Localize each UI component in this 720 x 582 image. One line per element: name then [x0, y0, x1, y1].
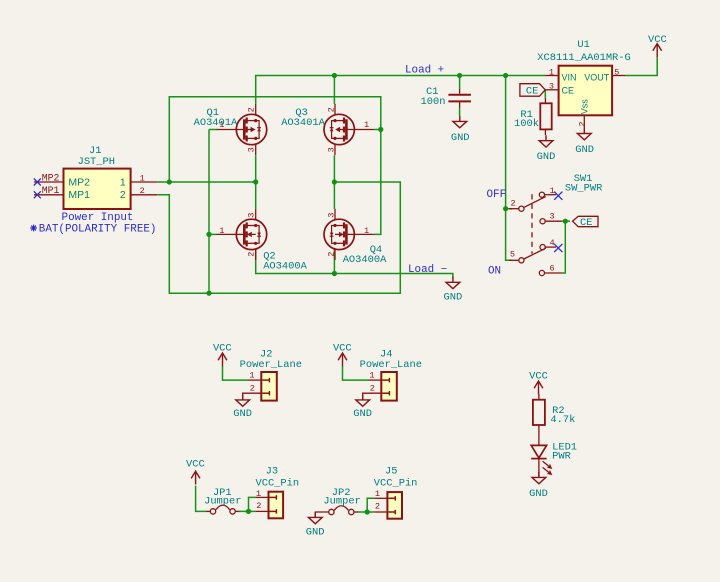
svg-text:MP2: MP2 — [42, 172, 60, 183]
svg-text:5: 5 — [614, 68, 619, 78]
node SW1 pin3 CE junction — [563, 219, 568, 224]
svg-text:GND: GND — [529, 488, 548, 500]
wire VOUT to VCC — [625, 56, 657, 75]
jumper JP1 — [204, 487, 241, 514]
svg-text:5: 5 — [510, 250, 515, 260]
no-connect X on MP2 — [34, 179, 41, 199]
svg-text:2: 2 — [326, 252, 336, 257]
wire Q3 gate stub — [374, 129, 381, 131]
power VCC at J4 — [333, 343, 352, 367]
svg-text:1: 1 — [549, 68, 554, 78]
svg-text:VIN: VIN — [562, 72, 577, 82]
svg-text:MP1: MP1 — [42, 185, 60, 196]
IC U1 XC8111_AA01MR-G — [537, 39, 631, 128]
ground below C1 — [451, 116, 470, 144]
ground on Load- — [444, 277, 463, 304]
svg-text:CE: CE — [580, 217, 592, 229]
wire Q3 source down to right midpoint — [333, 155, 335, 209]
svg-text:VCC: VCC — [186, 459, 205, 471]
svg-text:VCC: VCC — [529, 371, 548, 383]
wire Q3 drain to Load+ — [333, 76, 335, 104]
power VCC top right — [648, 34, 667, 57]
svg-text:1: 1 — [369, 371, 374, 381]
connector J2 Power_Lane — [240, 348, 302, 400]
wire SW1 pin2 stub — [506, 208, 512, 210]
power VCC at J2 — [213, 343, 232, 367]
wire Load+ to SW1 pin2 — [505, 76, 507, 209]
label CE at SW1 — [573, 216, 599, 229]
svg-text:VCC_Pin: VCC_Pin — [255, 478, 299, 490]
svg-text:1: 1 — [120, 176, 126, 188]
svg-text:PWR: PWR — [552, 451, 571, 463]
wire Load+ rail — [256, 76, 546, 104]
svg-text:AO3400A: AO3400A — [263, 260, 307, 272]
wire Q2 gate stub — [209, 233, 217, 235]
svg-text:Jumper: Jumper — [323, 496, 360, 508]
svg-text:1: 1 — [256, 489, 261, 499]
svg-text:2: 2 — [326, 107, 336, 112]
svg-text:J3: J3 — [266, 465, 278, 477]
svg-text:AO3401A: AO3401A — [194, 117, 238, 129]
star glyph of BAT note — [30, 225, 37, 232]
svg-text:GND: GND — [306, 527, 325, 539]
svg-text:2: 2 — [140, 186, 145, 196]
svg-text:MP1: MP1 — [68, 189, 90, 201]
svg-text:3: 3 — [246, 213, 256, 218]
wire J3 VCC down to JP1 — [196, 486, 207, 512]
svg-text:GND: GND — [233, 408, 252, 420]
ground at JP2 — [306, 512, 325, 539]
jumper JP2 — [315, 487, 361, 518]
svg-text:U1: U1 — [577, 39, 589, 51]
svg-text:2: 2 — [250, 384, 255, 394]
svg-text:4: 4 — [550, 238, 555, 248]
svg-text:100k: 100k — [514, 118, 539, 130]
svg-text:2: 2 — [370, 384, 375, 394]
node Q3 gate junction — [378, 127, 383, 132]
svg-text:1: 1 — [550, 186, 555, 196]
transistor Q2 AO3400A — [217, 209, 308, 273]
resistor R2 4.7k — [533, 394, 575, 445]
svg-text:CE: CE — [562, 85, 575, 95]
svg-text:MP2: MP2 — [68, 176, 90, 188]
node Q2 gate junction — [206, 232, 211, 237]
wire C1 bottom to GND — [459, 108, 461, 117]
node JP1 output junction — [246, 509, 251, 514]
svg-text:AO3400A: AO3400A — [343, 254, 387, 266]
svg-text:2: 2 — [120, 189, 126, 201]
svg-text:VCC: VCC — [648, 34, 667, 46]
LED D1 LED1 PWR — [531, 441, 577, 477]
svg-text:GND: GND — [353, 408, 372, 420]
svg-text:AO3401A: AO3401A — [281, 117, 325, 129]
power VCC at JP1 — [186, 459, 205, 485]
connector J1 JST_PH — [30, 145, 157, 235]
svg-text:3: 3 — [326, 147, 336, 152]
svg-text:6: 6 — [550, 264, 555, 274]
svg-text:1: 1 — [364, 226, 369, 236]
svg-text:3: 3 — [246, 147, 256, 152]
svg-text:CE: CE — [526, 86, 538, 98]
svg-text:GND: GND — [537, 151, 556, 163]
node SW1 pin2 junction — [503, 206, 508, 211]
node J1.2 bottom junction — [206, 291, 211, 296]
svg-text:Load +: Load + — [405, 64, 444, 76]
svg-text:1: 1 — [249, 371, 254, 381]
svg-text:GND: GND — [575, 144, 594, 156]
wire JP2 to J5 node — [357, 511, 374, 513]
svg-text:SW_PWR: SW_PWR — [565, 182, 602, 194]
wire rail A J1.1 to Q3/Q4 gates — [169, 97, 380, 235]
svg-text:2: 2 — [375, 502, 380, 512]
wire Q1/Q2 gate vertical — [209, 129, 217, 131]
wire J2 VCC to pin1 — [223, 366, 249, 380]
svg-text:Power_Lane: Power_Lane — [360, 359, 422, 371]
svg-text:VOUT: VOUT — [584, 72, 610, 82]
no-connect X on SW1 pins 1,4 — [554, 192, 562, 253]
connector J5 VCC_Pin — [374, 465, 418, 518]
svg-text:1: 1 — [219, 226, 224, 236]
node SW branch rail junction — [503, 73, 508, 78]
svg-text:Vss: Vss — [579, 99, 589, 115]
connector J3 VCC_Pin — [255, 465, 299, 518]
svg-text:3: 3 — [550, 212, 555, 222]
svg-text:2: 2 — [246, 107, 256, 112]
node Q3 drain rail junction — [332, 73, 337, 78]
svg-text:Power Input: Power Input — [62, 212, 134, 224]
svg-text:2: 2 — [246, 252, 256, 257]
wire J3 node up to pin1 — [249, 497, 256, 511]
node right midpoint junction — [332, 179, 337, 184]
wire SW1 pin3 to CE label — [562, 220, 570, 222]
label CE at U1 — [520, 84, 545, 98]
svg-text:VCC_Pin: VCC_Pin — [374, 478, 418, 490]
ground below LED1 — [529, 472, 548, 500]
svg-text:Power_Lane: Power_Lane — [240, 359, 302, 371]
capacitor C1 100n — [421, 86, 471, 108]
resistor R1 100k — [514, 98, 552, 135]
node JP2 output junction — [365, 509, 370, 514]
svg-text:4.7k: 4.7k — [550, 414, 575, 426]
transistor Q1 AO3401A — [194, 104, 267, 155]
svg-text:3: 3 — [326, 213, 336, 218]
wire Q1 source down to midpoint — [255, 155, 257, 209]
ground at J4 — [353, 394, 372, 419]
svg-text:BAT(POLARITY FREE): BAT(POLARITY FREE) — [39, 224, 157, 236]
wire J1 pin1 to left midpoint — [157, 181, 256, 183]
wire SW1 pin2 to pin5 — [506, 209, 512, 261]
wire right midpoint to J1.2 net — [157, 182, 400, 293]
svg-text:1: 1 — [219, 120, 224, 130]
svg-text:GND: GND — [451, 132, 470, 144]
svg-text:J5: J5 — [385, 465, 397, 477]
transistor Q3 AO3401A — [281, 104, 374, 155]
wire SW1 pin3 node down to pin6 — [562, 221, 565, 273]
node left midpoint junction — [253, 179, 258, 184]
node Q4 Load- junction — [332, 271, 337, 276]
svg-text:1: 1 — [375, 489, 380, 499]
svg-text:2: 2 — [511, 198, 516, 208]
switch SW1 SW_PWR — [487, 173, 603, 278]
svg-text:ON: ON — [488, 266, 501, 278]
wire CE pin to R1 — [544, 90, 546, 98]
transistor Q4 AO3400A — [324, 209, 387, 266]
node J1.1 junction — [167, 179, 172, 184]
wire J4 VCC to pin1 — [343, 366, 369, 380]
svg-text:JST_PH: JST_PH — [78, 156, 115, 168]
svg-text:1: 1 — [364, 120, 369, 130]
svg-text:3: 3 — [549, 81, 554, 91]
wire J5 node up to pin1 — [367, 498, 374, 512]
wire Q4 drain to Load- — [333, 249, 335, 273]
ground at J2 — [233, 394, 252, 419]
svg-text:GND: GND — [444, 292, 463, 304]
svg-text:Load −: Load − — [408, 264, 447, 276]
wire JP1 to J3 node — [239, 510, 256, 512]
svg-text:OFF: OFF — [487, 189, 507, 201]
svg-text:XC8111_AA01MR-G: XC8111_AA01MR-G — [537, 52, 631, 64]
svg-text:1: 1 — [140, 173, 145, 183]
connector J4 Power_Lane — [360, 348, 422, 400]
wire C1 top lead — [459, 76, 461, 90]
wire Q2 drain to Load- — [256, 249, 453, 277]
ground below R1 — [537, 135, 556, 163]
node C1 rail junction — [457, 73, 462, 78]
svg-text:2: 2 — [577, 121, 587, 126]
svg-text:2: 2 — [256, 501, 261, 511]
ground below Vss — [575, 128, 594, 156]
svg-text:Jumper: Jumper — [204, 496, 241, 508]
svg-text:VCC: VCC — [213, 343, 232, 355]
svg-text:100n: 100n — [421, 96, 446, 108]
svg-text:VCC: VCC — [333, 343, 352, 355]
power VCC at R2 — [529, 371, 548, 395]
